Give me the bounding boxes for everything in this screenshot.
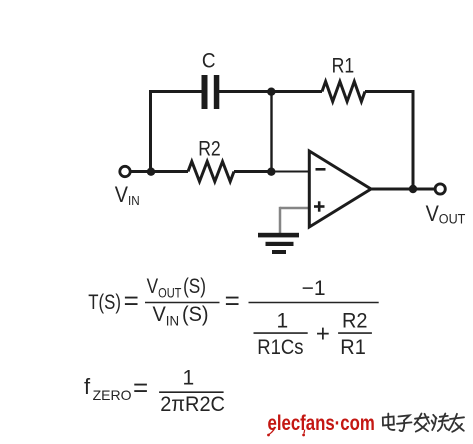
character you [449, 414, 464, 432]
svg-text:VOUT: VOUT [426, 202, 466, 227]
wire: grey vertical ground riser [279, 207, 282, 234]
junction dot: inverting node [267, 168, 275, 176]
wire: capacitor to R1 segment of top net [219, 90, 322, 93]
wire: grey horizontal from ground riser to op-amp plus input [280, 207, 308, 210]
wire: R1 to right corner of feedback net [365, 90, 413, 93]
svg-text:VOUT(S): VOUT(S) [147, 276, 206, 301]
ground [258, 233, 299, 254]
wire: right vertical feedback drop [412, 90, 415, 189]
watermark logo swash under e [267, 429, 305, 436]
svg-text:1: 1 [183, 366, 195, 389]
svg-text:VIN(S): VIN(S) [153, 303, 209, 329]
terminal VOUT open circle [435, 184, 445, 194]
svg-text:R1: R1 [332, 54, 355, 78]
svg-text:f: f [84, 374, 91, 399]
wire: inverting node to op-amp minus input [272, 171, 309, 173]
wire: VIN node to R2 [151, 170, 188, 173]
svg-text:+: + [316, 321, 330, 348]
wire: VIN terminal lead [131, 170, 152, 173]
resistor R1 [322, 82, 365, 102]
character shao [432, 414, 449, 432]
junction dot: output node [409, 185, 417, 193]
svg-text:R1Cs: R1Cs [257, 336, 303, 359]
character fa [415, 414, 430, 432]
svg-text:VIN: VIN [115, 183, 140, 208]
op-amp minus input sign [316, 168, 326, 171]
svg-text:R2: R2 [198, 137, 221, 161]
wire: top net left segment to capacitor [149, 90, 202, 93]
junction dot: top net tap [267, 88, 275, 96]
junction dot: VIN node [147, 168, 155, 176]
formula: fraction bar V_OUT/V_IN [145, 302, 220, 304]
svg-text:=: = [124, 286, 139, 316]
watermark chinese characters dian zi fa shao you [383, 414, 464, 432]
character zi [397, 415, 412, 431]
svg-text:2πR2C: 2πR2C [160, 393, 225, 417]
svg-text:C: C [202, 50, 216, 73]
wire: left vertical from VIN node up to top net [149, 92, 152, 174]
svg-text:elecfans·com: elecfans·com [268, 412, 375, 435]
resistor R2 [188, 162, 234, 182]
character dian [383, 414, 395, 430]
terminal VIN open circle [120, 166, 130, 176]
svg-text:=: = [133, 372, 148, 402]
svg-text:−1: −1 [302, 277, 326, 300]
svg-text:R1: R1 [340, 336, 365, 360]
op-amp plus input sign [314, 201, 325, 211]
svg-text:1: 1 [276, 309, 288, 332]
wire: op-amp output to VOUT terminal [370, 188, 435, 191]
formula: main fraction bar of right side [249, 302, 379, 304]
op-amp U1 [309, 151, 371, 227]
capacitor C [202, 75, 220, 109]
wire: R2 to inverting node [234, 170, 272, 173]
svg-text:=: = [225, 286, 240, 316]
svg-text:T(S): T(S) [88, 291, 121, 314]
svg-text:ZERO: ZERO [93, 387, 132, 403]
formula: bar over R1 [338, 332, 372, 334]
svg-text:R2: R2 [342, 309, 367, 333]
formula: bar over R1Cs [254, 332, 308, 334]
wire: vertical from top net tap down to inverting node [270, 92, 272, 172]
formula: fraction bar of f ZERO [159, 391, 224, 393]
